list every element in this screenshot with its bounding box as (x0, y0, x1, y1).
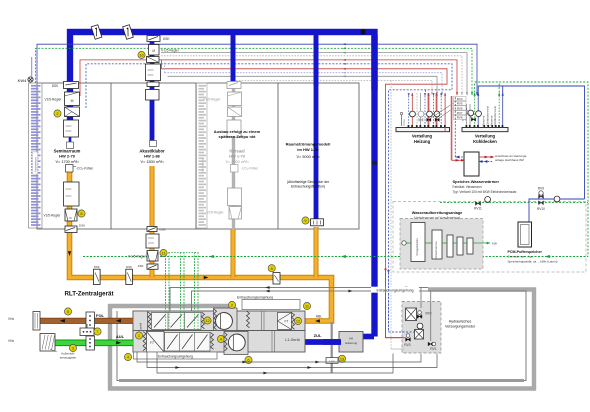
svg-text:DSK: DSK (79, 224, 85, 228)
valve RV2 (417, 315, 422, 319)
mixing valve MV1 heizung (427, 118, 431, 121)
wire from entrauchung line down to RV2 (420, 288, 422, 309)
valves RV9 RV10 (539, 195, 544, 199)
AHU top-left box with rotated label (133, 311, 148, 331)
svg-text:Anschluss an Heizungs-: Anschluss an Heizungs- (495, 154, 527, 158)
Entrauchung control line thin (170, 288, 428, 312)
treatment tank 2 (432, 230, 442, 259)
supply riser overlay right (371, 35, 377, 90)
volume flow controller col2 (147, 57, 160, 63)
svg-text:RV7: RV7 (457, 111, 463, 115)
marker 10 col2 (138, 51, 145, 58)
marker 12 top row (204, 317, 211, 324)
svg-text:DSK: DSK (52, 84, 59, 88)
storage right connections to Hochhaus WZ (479, 156, 493, 158)
marker 13 zul sensor box (326, 358, 338, 364)
svg-text:Nacherhitzer: Nacherhitzer (201, 158, 205, 173)
zone divider 3 (277, 83, 279, 229)
storage connections red/blue (452, 159, 464, 161)
storage water heater vessel (464, 152, 479, 176)
treatment tank 3 (447, 235, 453, 257)
AHU filter strip bottom 2 (211, 333, 214, 350)
control line bus 3: grey solid (161, 53, 467, 95)
marker 2 col1 (54, 110, 61, 117)
marker 7 bypass (94, 328, 101, 335)
svg-text:ZUL: ZUL (314, 333, 322, 338)
svg-text:Gemisch: ca. ...kg: Gemisch: ca. ...kg (508, 255, 532, 259)
flow arrow on col1 extract riser (68, 251, 71, 256)
svg-text:Lasttell: Lasttell (139, 322, 143, 331)
red vertical overlay through plant area (385, 272, 387, 338)
AHU coil sensor header green dashed (166, 252, 199, 254)
pump P2 heizung (418, 111, 424, 117)
grey control valve col3 extract (229, 207, 242, 220)
green process line through treatment (405, 242, 411, 244)
svg-text:Typ: Verticell 100 mit 6KW Ele: Typ: Verticell 100 mit 6KW Elektroheizei… (453, 190, 517, 194)
svg-text:-CO₂-Fühler: -CO₂-Fühler (76, 167, 94, 171)
svg-text:9: 9 (304, 218, 306, 223)
heat exchanger box 2 (415, 330, 424, 340)
svg-text:AUL: AUL (116, 334, 125, 339)
grey branch riser to hydraulic module (391, 80, 405, 349)
svg-text:RV3: RV3 (404, 343, 410, 347)
flow arrow on extract main left (204, 276, 209, 279)
wire down to RV1 (430, 291, 432, 341)
svg-text:Entrauchungsumgehung: Entrauchungsumgehung (377, 289, 414, 293)
AHU FT box top (278, 313, 292, 330)
control valve M col2 (149, 45, 160, 56)
control valve M col1 extract (65, 209, 77, 221)
AUL fresh air pipe (green) (55, 339, 133, 346)
treatment tank 1 (411, 223, 425, 262)
marker 11 col2 extract (160, 249, 167, 256)
red feed pair to storage water heater (444, 127, 446, 131)
blue dashed vertical overlay (388, 272, 390, 332)
svg-text:Entrauchungsfunktion): Entrauchungsfunktion) (291, 185, 325, 189)
AHU coil sensor lines overlay (green dashed pairs) (165, 259, 167, 330)
marker 4b bottom (217, 335, 224, 342)
svg-text:V1/5-Regler: V1/5-Regler (43, 214, 61, 218)
ZUL overlay over grey drop duct (323, 339, 341, 345)
AHU coil sensor lines green dashed pairs (165, 253, 167, 330)
manifold bar Verteilung Kuehldecken (462, 128, 508, 132)
AHU body bottom row (133, 331, 305, 353)
inlet box col2 at zone top (147, 82, 159, 87)
sensor tick on right riser (372, 161, 377, 165)
marker 6 below fan (245, 356, 252, 363)
mid control line green dashed (Entrauchung enable) (83, 256, 588, 258)
ZUL supply pipe from AHU to silencer (305, 339, 341, 345)
smoke bypass duct below AHU (134, 352, 218, 359)
pump hydraulic (417, 323, 423, 329)
svg-text:KW4: KW4 (18, 78, 27, 83)
pump P1 heizung (410, 111, 416, 117)
RV4-RV8 label stack (454, 97, 467, 101)
control wire below AHU 1 (137, 352, 421, 362)
duct fan symbol F2 on main header (123, 25, 134, 40)
svg-text:7: 7 (96, 329, 98, 334)
valve DSK col2 extract lower (147, 264, 158, 269)
zone divider 1 (110, 83, 112, 229)
svg-text:8: 8 (80, 211, 82, 216)
svg-text:13: 13 (340, 356, 344, 361)
supply riser overlay col4 (314, 36, 319, 86)
AHU supply fan F3 (216, 313, 233, 330)
pump P3 heizung (427, 111, 433, 117)
svg-text:V̇= 5000 m³/h: V̇= 5000 m³/h (297, 154, 320, 159)
CO2 sensor col1 (66, 165, 74, 173)
leader lines RV labels to valves (430, 103, 454, 119)
blue line to PCM buffer (529, 199, 585, 223)
main supply duct (blue) top header with right riser to AHU ZUL (70, 32, 375, 337)
svg-text:Hydraulisches: Hydraulisches (449, 320, 472, 324)
svg-text:8: 8 (271, 266, 273, 271)
svg-text:VHs: VHs (8, 317, 14, 321)
svg-text:DSK: DSK (160, 228, 166, 232)
marker 8 col1 extract (78, 210, 85, 217)
junction mark on main header (361, 30, 366, 35)
svg-text:Nacherhitzer: Nacherhitzer (34, 157, 38, 172)
bundle drop arrows above distribution manifolds (476, 92, 478, 95)
grey drop duct from ABL corner to control lines (331, 322, 333, 373)
stub red col2 valve (161, 60, 163, 69)
svg-text:12: 12 (205, 318, 209, 323)
svg-text:Umkehrosmose: Umkehrosmose (435, 241, 438, 259)
svg-text:Entrauchungsumgehung: Entrauchungsumgehung (237, 296, 273, 300)
treatment tank 5 (467, 238, 473, 254)
marker 11b on bypass (303, 302, 310, 309)
svg-text:%: % (69, 216, 72, 220)
grey CO2 sensor col3 (231, 165, 239, 173)
svg-text:KW: KW (492, 242, 497, 246)
base dots kuehldecken (466, 125, 468, 127)
svg-text:Heizung: Heizung (414, 139, 431, 144)
svg-text:RV4: RV4 (457, 97, 463, 101)
svg-text:Raumströmungsmodell: Raumströmungsmodell (286, 142, 331, 147)
bypass damper box between FOL and AUL (86, 324, 88, 340)
svg-text:11: 11 (305, 304, 309, 309)
dashed plant-room enclosure (393, 202, 586, 273)
hydraulic feed overlay grey dashed (391, 348, 405, 350)
svg-text:RV1: RV1 (430, 347, 436, 351)
heating coil HX3 (ladder fins grey) (199, 85, 207, 87)
svg-text:Wasseraufbereitungsanlage: Wasseraufbereitungsanlage (412, 211, 463, 215)
extract riser col3 (from grey valves) (231, 229, 236, 278)
control line bus 9: grey solid 2 (168, 76, 438, 95)
control line bus 4: grey dashed (161, 56, 462, 95)
valve DSK col1 extract (65, 226, 77, 233)
supply stub col2 (150, 141, 157, 147)
grey control valve M col3 (228, 92, 242, 106)
svg-text:RV5: RV5 (457, 102, 463, 106)
grey attenuator col3 (227, 120, 241, 137)
svg-text:V-1/5-Regler: V-1/5-Regler (161, 49, 180, 53)
duct fan symbol F1 on main header (91, 25, 102, 40)
svg-text:V1/5-Regler: V1/5-Regler (206, 211, 224, 215)
control line bus 2: green dashed (36, 48, 473, 95)
svg-text:(Abluftseitige Simulation der: (Abluftseitige Simulation der (287, 180, 330, 184)
AHU filter strip top (148, 312, 151, 329)
svg-text:Kühldeckennetz: Kühldeckennetz (493, 105, 497, 126)
pump P6 kuehldecken (476, 111, 482, 117)
supply riser overlay col3 (231, 36, 236, 82)
KW4 feed stub (31, 57, 33, 77)
KW4 fresh-water tap symbol (28, 77, 33, 82)
control valve M col1 supply (65, 92, 80, 106)
svg-text:2: 2 (231, 303, 233, 308)
extract riser col2 (150, 166, 155, 278)
inline damper A on extract main (273, 273, 280, 285)
valve RV1 (428, 342, 433, 346)
inner duct loop bottom thick (119, 379, 524, 382)
svg-text:RV10: RV10 (537, 207, 545, 211)
control valve M col2 extract (147, 251, 158, 262)
grey supply pipe col3 (232, 84, 235, 229)
pump P4 heizung (434, 111, 440, 117)
junction arrows on control bus at x344 (343, 43, 346, 45)
attenuator box col1 extract (64, 182, 80, 206)
svg-text:im HW 1-80: im HW 1-80 (297, 147, 319, 152)
thermometer heizung (401, 114, 403, 126)
svg-text:V-1/5-Regler: V-1/5-Regler (128, 254, 147, 258)
svg-text:HW 1-79: HW 1-79 (229, 154, 246, 159)
ZUL supply pipe from silencer to riser (361, 334, 374, 339)
heating coil HX3 enclosure (greyed) (197, 83, 208, 228)
blue dashed return from storage (454, 96, 456, 157)
green dashed KW line across plant room (440, 201, 588, 203)
grey attenuator col3 extract (228, 188, 242, 206)
blue branch (502, 86, 504, 96)
svg-text:DSK: DSK (163, 37, 170, 41)
AHU filter strip mid (247, 311, 250, 328)
svg-text:Entrauchungsumgehung: Entrauchungsumgehung (158, 354, 193, 358)
control wire below AHU 2 (147, 352, 437, 368)
main extract pipe (orange) horizontal with riser col1 and drop to ABL (70, 172, 332, 322)
AHU filter strip top 2 (202, 312, 205, 329)
control line bus 6: blue dashed to hydraulic module (86, 64, 452, 332)
manifold bar Verteilung Heizung (396, 128, 450, 132)
svg-text:Isolierung: Isolierung (345, 341, 358, 345)
svg-text:ansauggitter: ansauggitter (60, 355, 77, 359)
extract riser col4 (314, 227, 319, 278)
red arrow down near hydraulic feeds (384, 269, 387, 273)
svg-text:M: M (71, 99, 74, 103)
marker 7b (228, 301, 235, 308)
svg-text:Vorlagebehälter: Vorlagebehälter (416, 238, 419, 256)
bypass duct above AHU right (242, 300, 300, 310)
AHU bottom right section (271, 331, 273, 353)
svg-text:1: 1 (138, 333, 140, 338)
heating coil HX1 enclosure (29, 83, 43, 228)
AHU supply fan F3 box (214, 308, 238, 331)
marker 1 ahu (135, 332, 142, 339)
control wire below AHU 3 (157, 352, 393, 373)
base dots heizung (408, 125, 410, 127)
marker 12b top right (294, 317, 301, 324)
inline damper C on extract main (126, 269, 133, 284)
svg-text:V̇= 2000 m³/h: V̇= 2000 m³/h (226, 159, 249, 164)
svg-text:VH: VH (349, 337, 353, 341)
zone rooms outer box (37, 83, 359, 229)
valve RV3 (406, 338, 411, 342)
damper box col4 (311, 219, 324, 226)
FOL damper (86, 312, 95, 330)
inline damper D on extract main (94, 269, 101, 284)
arrows on entrauchung lines (265, 286, 269, 289)
control line bus 5: red solid (80, 60, 457, 96)
pump P5 kuehldecken (468, 110, 474, 116)
volume flow controller col1 supply (65, 107, 80, 117)
AHU body top row (133, 311, 305, 331)
stub lblue col2 valve (164, 63, 166, 73)
svg-text:RV9: RV9 (538, 187, 544, 191)
svg-text:Kühldecken: Kühldecken (473, 139, 497, 144)
manifold arrows heizung (408, 93, 410, 96)
svg-text:V1/5-Regler: V1/5-Regler (44, 98, 62, 102)
attenuator box col2 (146, 90, 160, 101)
svg-text:12: 12 (296, 319, 300, 324)
FOL end grille (33, 312, 40, 331)
svg-text:-CO₂-Fühler: -CO₂-Fühler (241, 167, 259, 171)
svg-text:V̇= 1700 m³/h: V̇= 1700 m³/h (56, 159, 79, 164)
treatment tank 4 (457, 237, 463, 255)
valve RV11 with pump (475, 201, 480, 205)
PCM buffer vessel (518, 222, 532, 247)
svg-text:HW 2-79: HW 2-79 (59, 154, 76, 159)
svg-text:RV11: RV11 (474, 207, 482, 211)
AHU filter strip right edge (292, 313, 295, 330)
marker 3 aul (69, 344, 76, 351)
mixing valve kuehldecken (471, 118, 475, 121)
ZUL silencer box (339, 332, 363, 353)
svg-text:DSK: DSK (94, 265, 100, 269)
svg-text:11: 11 (161, 251, 165, 256)
AHU extract fan F4 (228, 334, 245, 351)
svg-text:V̇= 1500 m³/h: V̇= 1500 m³/h (141, 159, 164, 164)
label entrauchungsumgehung top right (371, 287, 419, 293)
grey volume flow controller col3 (228, 107, 242, 117)
svg-text:RV8: RV8 (457, 116, 463, 120)
control line bus 10: grey dashed 2 with branch (233, 80, 432, 95)
grey valve DSK col3 (227, 82, 241, 89)
svg-text:M: M (152, 49, 155, 53)
svg-text:RLT-Zentralgerät: RLT-Zentralgerät (64, 291, 113, 298)
marker 8b (268, 265, 275, 272)
AUL intake grille (40, 334, 55, 352)
AHU bottom-left box (133, 331, 147, 353)
control line bus 7: red solid 2 routed to hydraulic module (162, 69, 448, 338)
kuehldecken line branch green (498, 82, 500, 96)
flow arrow on ABL duct (315, 319, 320, 322)
AHU heating coil top row (152, 313, 202, 330)
heat exchanger RV2 box (406, 308, 417, 321)
mixing valve MV2 heizung (435, 118, 439, 121)
svg-text:V1/5-Regler: V1/5-Regler (203, 98, 221, 102)
AHU filter strip bottom-left (143, 332, 146, 351)
svg-text:Versorgungsmodul: Versorgungsmodul (445, 325, 475, 329)
AHU heating coil bottom row (165, 333, 211, 352)
zone divider 2 (195, 83, 197, 229)
hydraulic feed overlay red (386, 337, 406, 339)
kuehldecken supply/return lines to right riser: green dashed (475, 82, 588, 257)
svg-text:3: 3 (72, 346, 74, 351)
AUL damper (86, 336, 95, 350)
grey fitting heizung (419, 118, 423, 122)
AHU FT box bottom (preheater) (147, 332, 165, 353)
supply riser col2 (Akustiklabor) (150, 32, 155, 141)
control line bus 1: blue solid (37, 44, 477, 95)
Verteilung Kuehldecken manifold verticals (466, 104, 468, 128)
AHU extract fan F4 box (224, 332, 248, 355)
arrows on mid green line (209, 255, 214, 258)
water treatment plant grey box (400, 219, 483, 270)
attenuator box col2 upper (146, 64, 161, 81)
FOL exhaust pipe (brown) (40, 318, 133, 324)
svg-text:HW 1-86: HW 1-86 (144, 154, 161, 159)
svg-text:FT: FT (285, 320, 289, 324)
svg-text:anlage Hochhaus WZ: anlage Hochhaus WZ (495, 158, 524, 162)
grey fitting kuehldecken (462, 118, 466, 122)
supply riser col4 (Raumstroemungsmodell) (314, 32, 319, 219)
svg-text:FOL: FOL (96, 313, 105, 318)
blue arrow down near hydraulic feeds (387, 270, 390, 274)
svg-text:späteren Zeitpu nkt: späteren Zeitpu nkt (219, 134, 257, 139)
heating coil HX1 (ladder fins) (31, 85, 41, 87)
svg-text:2: 2 (56, 111, 58, 116)
supply riser col3 stub (Hoersaal) (231, 32, 236, 84)
pump on blue PCM line (554, 196, 560, 202)
attenuator box col1 supply (64, 120, 79, 137)
svg-text:Speicherkapazität: ca. ...kWh: Speicherkapazität: ca. ...kWh (Latent) (508, 259, 558, 263)
hydraulic module grey box (402, 302, 441, 354)
attenuator box col2 extract (146, 234, 159, 248)
marker 5 fol (64, 308, 71, 315)
svg-text:RV6: RV6 (457, 106, 463, 110)
svg-text:Speicher-Wasserwärmer: Speicher-Wasserwärmer (453, 179, 500, 184)
svg-text:VHs: VHs (8, 339, 14, 343)
kuehldecken arrows (474, 93, 476, 96)
valve DSK col2 below header (147, 36, 160, 42)
svg-text:FT: FT (150, 341, 154, 345)
svg-text:PCM-Pufferspeicher: PCM-Pufferspeicher (508, 250, 543, 254)
svg-text:ABL: ABL (316, 314, 323, 318)
svg-text:L1-Gerät: L1-Gerät (285, 338, 299, 342)
svg-text:Fühler: Fühler (403, 119, 406, 126)
marker 9 col4 (302, 217, 309, 224)
supply stub into room col1 (69, 137, 72, 142)
coil HX1 label plate (33, 152, 38, 174)
svg-text:5: 5 (67, 309, 69, 314)
AUL arrow (116, 341, 121, 345)
marker 4 below ahu left (124, 353, 131, 360)
svg-text:DSK: DSK (138, 264, 144, 268)
Verteilung Heizung manifold verticals (408, 93, 410, 128)
kuehldecken supply/return lines: blue solid (478, 86, 584, 199)
svg-text:DSK: DSK (126, 265, 132, 269)
control line bus 8: light blue dashed (165, 73, 443, 95)
smoke extract duct main loop (thick grey) (110, 290, 534, 389)
svg-text:(Umkehrosmose mit Voraufbereit: (Umkehrosmose mit Voraufbereitung) (414, 216, 461, 220)
svg-text:Fabrikat: Viessmann: Fabrikat: Viessmann (453, 185, 482, 189)
valve DSK col1 supply (64, 82, 79, 89)
inner duct loop thin (117, 291, 526, 381)
FOL arrows (60, 319, 65, 323)
valve DSK col2 extract (147, 227, 157, 232)
hydraulic feed overlay blue dashed (389, 331, 415, 333)
AHU top right section (261, 311, 263, 331)
